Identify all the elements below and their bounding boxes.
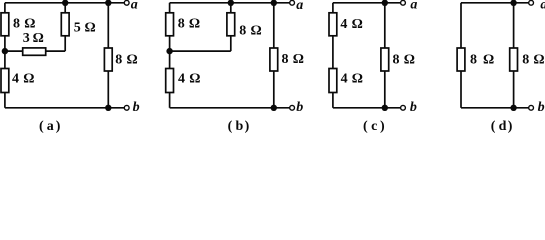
svg-text:4: 4 bbox=[341, 72, 348, 87]
resistor 4ohm (a) lower left bbox=[1, 69, 9, 93]
resistor 8ohm (b) left bbox=[166, 13, 174, 36]
node junction (b) left mid bbox=[166, 48, 172, 54]
svg-text:c: c bbox=[371, 119, 377, 134]
svg-text:): ) bbox=[380, 119, 385, 134]
svg-text:b: b bbox=[236, 119, 244, 134]
resistor 8ohm (a) right bbox=[104, 48, 112, 71]
svg-text:a: a bbox=[296, 0, 303, 13]
svg-text:): ) bbox=[56, 119, 61, 134]
resistor 4ohm (c) upper left bbox=[329, 13, 337, 36]
terminal a (d) bbox=[529, 0, 534, 5]
svg-text:8: 8 bbox=[13, 17, 20, 32]
resistor 4ohm (c) lower left bbox=[329, 69, 337, 93]
wire: (b) right branch vertical bbox=[273, 3, 275, 108]
svg-text:): ) bbox=[508, 119, 513, 134]
wire: (d) right branch vertical bbox=[513, 3, 515, 108]
svg-text:8: 8 bbox=[239, 23, 246, 38]
wire: (a) middle branch vertical bbox=[64, 3, 66, 51]
svg-text:8: 8 bbox=[115, 52, 122, 67]
wire: (b) middle branch vertical bbox=[230, 3, 232, 51]
wire: (a) mid horizontal through 3-ohm bbox=[5, 50, 65, 52]
svg-text:b: b bbox=[410, 100, 417, 115]
node junction (d) bottom right bbox=[510, 105, 516, 111]
svg-text:4: 4 bbox=[178, 72, 185, 87]
svg-text:Ω: Ω bbox=[483, 52, 494, 67]
svg-text:Ω: Ω bbox=[189, 72, 200, 87]
svg-text:a: a bbox=[47, 119, 54, 134]
terminal b (a) bbox=[124, 105, 129, 110]
svg-text:5: 5 bbox=[74, 21, 81, 36]
resistor 8ohm (a) left bbox=[1, 13, 9, 36]
terminal b (b) bbox=[290, 105, 295, 110]
node junction (a) left mid bbox=[2, 48, 8, 54]
terminal a (a) bbox=[124, 0, 129, 5]
wire: (c) right branch vertical bbox=[384, 3, 386, 108]
svg-text:Ω: Ω bbox=[33, 31, 44, 46]
node junction (b) bottom right bbox=[271, 105, 277, 111]
svg-text:8: 8 bbox=[470, 52, 477, 67]
svg-text:Ω: Ω bbox=[251, 23, 262, 38]
wire: (a) bottom wire bbox=[5, 107, 127, 109]
svg-text:(: ( bbox=[39, 119, 44, 134]
wire: (b) top wire bbox=[170, 2, 293, 4]
svg-text:8: 8 bbox=[178, 17, 185, 32]
wire: (d) top wire bbox=[461, 2, 531, 4]
node junction (c) top right bbox=[382, 0, 388, 6]
wire: (b) left branch vertical bbox=[169, 3, 171, 108]
resistor 3ohm (a) horizontal bbox=[23, 48, 46, 55]
svg-text:4: 4 bbox=[12, 72, 19, 87]
svg-text:(: ( bbox=[491, 119, 496, 134]
node junction (a) top middle bbox=[62, 0, 68, 6]
resistor 8ohm (b) right bbox=[270, 48, 278, 71]
svg-text:8: 8 bbox=[282, 52, 289, 67]
node junction (b) top middle bbox=[228, 0, 234, 6]
terminal a (c) bbox=[401, 0, 406, 5]
svg-text:Ω: Ω bbox=[352, 72, 363, 87]
svg-text:Ω: Ω bbox=[189, 17, 200, 32]
svg-text:a: a bbox=[410, 0, 417, 12]
wire: (b) mid horizontal bbox=[170, 50, 231, 52]
wire: (d) left branch vertical bbox=[460, 3, 462, 108]
svg-text:a: a bbox=[540, 0, 545, 12]
svg-text:b: b bbox=[133, 100, 140, 115]
resistor 8ohm (c) right bbox=[381, 48, 389, 71]
svg-text:b: b bbox=[538, 100, 545, 115]
node junction (b) top right bbox=[271, 0, 277, 6]
resistor 8ohm (b) middle bbox=[227, 13, 235, 36]
resistor 8ohm (d) left bbox=[457, 48, 465, 71]
wire: (c) top wire bbox=[333, 2, 403, 4]
node junction (d) top right bbox=[510, 0, 516, 6]
svg-text:Ω: Ω bbox=[352, 17, 363, 32]
svg-text:b: b bbox=[296, 100, 303, 115]
svg-text:Ω: Ω bbox=[533, 52, 544, 67]
wire: (b) bottom wire bbox=[170, 107, 293, 109]
wire: (a) right branch vertical bbox=[107, 3, 109, 108]
svg-text:a: a bbox=[131, 0, 138, 12]
svg-text:): ) bbox=[245, 119, 250, 134]
wire: (a) top wire bbox=[5, 2, 127, 4]
svg-text:Ω: Ω bbox=[293, 52, 304, 67]
wire: (d) bottom wire bbox=[461, 107, 531, 109]
svg-text:(: ( bbox=[363, 119, 368, 134]
wire: (c) bottom wire bbox=[333, 107, 403, 109]
terminal a (b) bbox=[290, 0, 295, 5]
resistor 4ohm (b) lower left bbox=[166, 69, 174, 93]
svg-text:4: 4 bbox=[340, 17, 347, 32]
wire: (c) left branch vertical bbox=[332, 3, 334, 108]
svg-text:8: 8 bbox=[522, 52, 529, 67]
node junction (c) bottom right bbox=[382, 105, 388, 111]
svg-text:Ω: Ω bbox=[23, 72, 34, 87]
resistor 8ohm (d) right bbox=[510, 48, 518, 71]
wire: (a) left branch vertical bbox=[4, 3, 6, 108]
resistor 5ohm (a) middle bbox=[61, 13, 69, 36]
terminal b (d) bbox=[529, 105, 534, 110]
svg-text:(: ( bbox=[228, 119, 233, 134]
svg-text:Ω: Ω bbox=[127, 52, 138, 67]
node junction (a) bottom right bbox=[105, 105, 111, 111]
svg-text:Ω: Ω bbox=[85, 21, 96, 36]
svg-text:Ω: Ω bbox=[404, 52, 415, 67]
svg-text:Ω: Ω bbox=[24, 17, 35, 32]
svg-text:d: d bbox=[499, 119, 507, 134]
svg-text:8: 8 bbox=[393, 52, 400, 67]
svg-text:3: 3 bbox=[23, 31, 30, 46]
node junction (a) top right bbox=[105, 0, 111, 6]
terminal b (c) bbox=[401, 105, 406, 110]
